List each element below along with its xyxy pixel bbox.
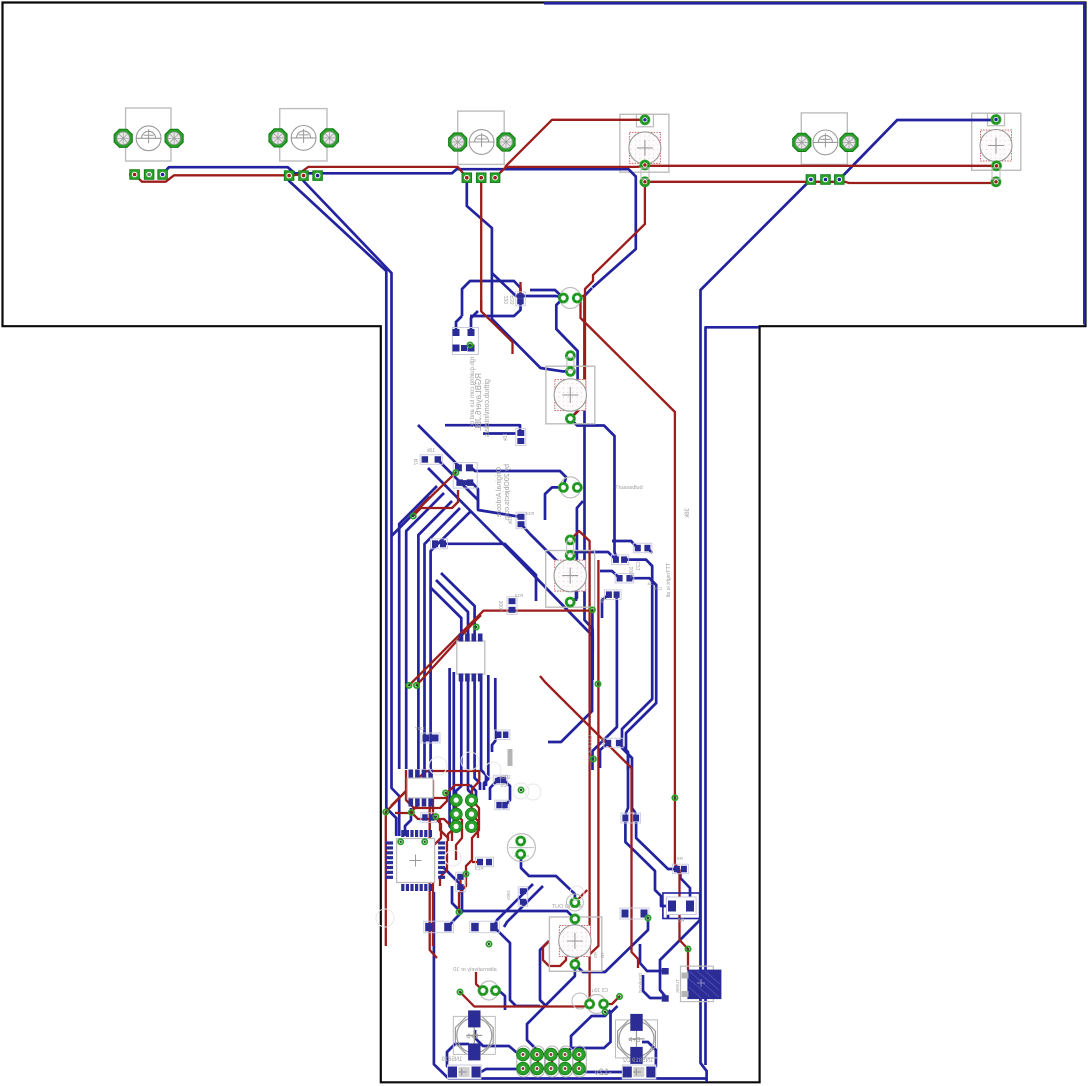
wire q2 via red	[413, 473, 456, 514]
wire c21 left blue	[566, 552, 616, 560]
diode D1	[448, 1065, 482, 1079]
wire col5 pad3 to LED D6 blue	[839, 120, 996, 180]
svg-text:10k: 10k	[426, 448, 435, 454]
header J6 pads	[517, 1048, 586, 1075]
label ardcore	[496, 467, 503, 517]
wire green cluster red2	[470, 800, 472, 826]
wire col5 to stem right blue	[701, 180, 811, 1083]
wire c5b blue	[503, 780, 510, 808]
label objects	[504, 464, 511, 520]
label bulbasaur	[615, 485, 642, 491]
svg-text:1N5819 D2: 1N5819 D2	[622, 1058, 653, 1064]
capacitor C6	[560, 288, 582, 309]
capacitor C5b	[495, 800, 509, 810]
svg-text:alternatively or 10: alternatively or 10	[453, 967, 496, 973]
connector J1 pads	[130, 170, 168, 180]
wire audio out right blue	[575, 918, 648, 972]
wire mid pair blue 2	[492, 678, 495, 752]
svg-text:8Я: 8Я	[678, 918, 685, 924]
wire sc3 right red	[604, 997, 620, 1005]
wire mid verticals blue 1	[556, 298, 577, 418]
wire red bottom h	[460, 992, 590, 1007]
wire cluster c5 blue	[490, 780, 498, 800]
wire soic2 pair blue 2	[454, 672, 458, 826]
wire soic2 down blue 3	[475, 681, 480, 790]
svg-text:R34: R34	[525, 511, 534, 516]
wire below row red	[645, 182, 996, 183]
wire header diag blue	[566, 1010, 611, 1054]
label R46	[600, 596, 605, 604]
resistor R2	[470, 921, 500, 933]
svg-text:C28: C28	[653, 586, 662, 591]
wire green cluster red3	[448, 826, 456, 841]
svg-text:10k: 10k	[600, 596, 605, 604]
wire soic2 up blue 3	[441, 573, 475, 634]
wire header red v1	[537, 1054, 539, 1069]
wire mid red h	[422, 770, 430, 772]
wire q2 diag blue 1	[418, 425, 458, 466]
svg-text:R5: R5	[593, 952, 598, 958]
capacitor C10	[456, 872, 466, 892]
capacitor C18 (electrolytic)	[616, 1014, 658, 1064]
wire staircase s5 blue	[612, 541, 638, 548]
wire green cluster red1	[455, 800, 457, 814]
wire weave w5 red	[424, 770, 448, 798]
label quiring	[470, 357, 476, 428]
wire diag to R2 blue 2	[504, 886, 543, 927]
connector J5 pads	[806, 175, 844, 185]
courtyard circles	[376, 752, 584, 927]
wire soic2 up blue 2	[436, 580, 468, 634]
resistor R13	[507, 597, 517, 615]
wire header to E2 blue	[565, 1006, 618, 1055]
IR sensor U5	[793, 113, 858, 164]
wire dpak pad2 blue	[643, 975, 662, 998]
wire soic2 down blue 2	[468, 681, 472, 800]
svg-text:TU99K: TU99K	[675, 979, 680, 993]
wire c6 stub red	[577, 295, 585, 298]
wire led2 top red	[570, 531, 592, 1002]
label alt	[453, 967, 496, 973]
LED D6 outline	[972, 113, 1021, 170]
wire R33 blue	[470, 302, 521, 317]
label C21	[636, 561, 642, 570]
wire sc2 left blue	[545, 487, 563, 520]
capacitor C15 (electrolytic)	[453, 1010, 495, 1060]
svg-text:RC2: RC2	[474, 866, 483, 871]
wire mid verticals blue 3	[570, 501, 583, 602]
wire red h610	[409, 611, 592, 686]
label magnificent	[666, 563, 672, 598]
svg-text:TB: TB	[600, 952, 605, 958]
svg-text:4+3: 4+3	[629, 1037, 641, 1044]
label R7	[426, 448, 435, 454]
diode D2	[622, 1065, 656, 1079]
wire weave w7 red	[433, 780, 441, 946]
wire R16 h blue	[483, 432, 516, 435]
resistor R33	[516, 292, 526, 306]
svg-text:100p: 100p	[629, 566, 635, 577]
wire staircase s4 blue	[647, 548, 652, 553]
wire audio to header blue	[527, 964, 575, 1054]
label C5	[499, 775, 510, 781]
capacitor C17	[572, 993, 607, 1014]
wire stem right edge blue	[706, 327, 760, 1065]
label R13	[499, 601, 505, 612]
wire weave w8 red	[440, 841, 447, 886]
wire D2 to E2 blue	[642, 1042, 656, 1072]
wire mid verticals blue 2	[585, 288, 593, 680]
label TU99	[675, 979, 680, 993]
IR sensor U2	[269, 109, 339, 161]
capacitor C13	[421, 733, 440, 743]
wire left fan 5 blue	[431, 512, 470, 769]
wire R33 top blue	[462, 281, 521, 316]
wire header red r2b	[566, 1067, 580, 1069]
wire sc4 blue	[499, 991, 505, 1011]
wire r8 link blue	[690, 905, 696, 908]
transistor Q1	[452, 328, 478, 355]
capacitor C28	[615, 574, 634, 584]
wire diag to R2 blue 1	[494, 884, 533, 927]
label 38k	[685, 508, 691, 519]
wire c6 left blue	[530, 290, 563, 298]
IR sensor U1	[114, 108, 183, 161]
wire sc4 red	[476, 972, 483, 991]
connector J3 pads	[462, 173, 500, 183]
svg-text:R9: R9	[677, 856, 683, 861]
wire weave w10 red	[440, 819, 448, 841]
wire bottom mid diag blue	[494, 927, 540, 1006]
svg-text:C5: C5	[501, 783, 508, 789]
capacitor C29	[633, 543, 652, 553]
connector JP2 pad cluster	[450, 794, 478, 832]
wire cluster right red	[466, 781, 479, 874]
label github	[484, 379, 491, 437]
wire q3 out blue	[521, 854, 575, 903]
wire R16 top blue	[445, 425, 520, 430]
wire cluster r2 red	[459, 874, 466, 912]
wire dpak red stub	[687, 966, 689, 970]
wire soic2 pair blue 1	[450, 668, 452, 829]
wire audio cap link blue	[574, 919, 577, 925]
LED D4 outline	[620, 114, 669, 172]
wire weave w11 red	[456, 814, 462, 860]
wire c28 blue	[600, 571, 620, 578]
wire r8 to edge blue	[668, 906, 672, 918]
wire R34 out blue	[521, 524, 576, 601]
svg-text:R33: R33	[510, 295, 516, 304]
wire col2 pad2 left trunk blue	[304, 176, 400, 836]
label R9	[677, 856, 683, 861]
wire E1 top to header blue	[475, 1030, 524, 1054]
wire red v2	[575, 560, 599, 964]
resistor R8	[663, 893, 700, 924]
wire top row red upper	[505, 120, 645, 167]
svg-text:100n: 100n	[499, 775, 510, 781]
wire left fan 2 blue	[406, 493, 444, 769]
svg-text:breakout: breakout	[638, 973, 644, 993]
wire top row red col3-col4	[495, 166, 645, 178]
LED pads top row	[641, 116, 1000, 186]
wire clockin blue	[619, 743, 628, 770]
resistor R22	[421, 813, 437, 823]
svg-text:bulbasaur?: bulbasaur?	[615, 485, 642, 491]
svg-text:rgb.quiring.com lux and co: rgb.quiring.com lux and co	[470, 357, 476, 428]
wire header red v3	[578, 1054, 580, 1069]
label minus12v	[594, 1067, 612, 1077]
wire qfp right fan blue	[452, 886, 575, 919]
wire C16 h blue	[446, 544, 536, 601]
wire audio left red	[543, 941, 566, 966]
label C1	[506, 890, 511, 901]
wire long diag red	[577, 298, 688, 966]
transistor Q3	[507, 834, 535, 862]
wire col3 pad1 to C7 blue	[467, 178, 571, 372]
label R25	[474, 866, 483, 871]
svg-text:-12v: -12v	[594, 1067, 612, 1077]
wire staircase s1 blue	[622, 560, 652, 814]
resistor R25	[476, 857, 494, 867]
wire led3 top red	[575, 890, 587, 903]
LED D7 pads	[567, 352, 575, 423]
svg-text:300k: 300k	[499, 601, 505, 612]
wire qfp red pin link	[429, 816, 431, 838]
wire R19 down blue 2	[636, 822, 690, 900]
resistor R21	[495, 730, 510, 740]
svg-text:2a: 2a	[647, 581, 653, 586]
label D2	[622, 1058, 653, 1064]
wire weave w2 red	[391, 770, 411, 806]
wire r25 red	[472, 861, 480, 863]
wire left red vertical	[413, 490, 458, 516]
wire D1 to header blue	[481, 1069, 524, 1073]
capacitor C5	[493, 775, 507, 785]
capacitor C7	[560, 477, 582, 498]
wire mid diag blue 2	[436, 458, 478, 508]
label R34	[508, 516, 514, 525]
wire left fan 1 blue	[399, 486, 437, 769]
wire q1 pads blue	[456, 316, 462, 332]
op-amp U4	[457, 634, 485, 682]
wire dpak diag blue	[660, 920, 700, 996]
wire top row col2-col4 blue	[318, 169, 636, 287]
resistor R1	[424, 921, 454, 933]
IC U2 (QFP)	[386, 830, 445, 891]
label R33	[504, 296, 510, 305]
wire led1 bottom blue	[570, 419, 616, 560]
wire left fan 3 blue	[418, 501, 452, 769]
svg-text:R45: R45	[600, 737, 605, 745]
wire weave w12 red	[472, 814, 479, 838]
svg-text:by 20Objects.com: by 20Objects.com	[504, 464, 511, 520]
wire staircase s2 blue	[626, 578, 656, 814]
svg-text:38k: 38k	[685, 508, 691, 519]
svg-text:4+3: 4+3	[466, 1033, 478, 1040]
wire border top-right blue	[544, 3, 1084, 324]
wire bl3 left blue	[540, 941, 549, 1006]
svg-text:C5 10u: C5 10u	[592, 988, 608, 994]
wire C6 feed blue	[492, 273, 564, 298]
wire col4 below down red	[570, 182, 645, 419]
wire header red r2	[524, 1067, 553, 1069]
svg-text:R13: R13	[514, 593, 523, 598]
wire soic2 down blue 4	[481, 681, 486, 786]
wire mid pair blue 1	[484, 675, 488, 790]
wire D1 to E1 blue	[447, 1044, 469, 1072]
wire q2 diag blue 2	[469, 466, 566, 488]
LED D9	[549, 917, 601, 971]
resistor R10	[620, 908, 649, 919]
label C13	[414, 726, 425, 731]
wire left fan 4 blue	[425, 508, 461, 769]
wire header row2 right blue	[580, 1069, 628, 1073]
wire R19 down blue 1	[625, 822, 666, 906]
wire clockin2 blue	[600, 743, 608, 768]
wire weave w4 red	[411, 812, 452, 841]
wire soic2 up blue 1	[430, 587, 461, 634]
svg-text:Original Ardcore: Original Ardcore	[496, 467, 503, 517]
transistor Q5 (DPAK)	[662, 966, 722, 1002]
wire qfp right fan2 blue	[444, 868, 462, 927]
wire weave w3 red	[406, 770, 470, 808]
svg-text:1N5819: 1N5819	[441, 1057, 463, 1063]
label audio	[551, 904, 582, 910]
wire R13 via blue	[591, 610, 594, 628]
resistor R19	[621, 813, 641, 823]
wire weave w6 red	[430, 780, 437, 958]
wire col3 pad2 down red	[481, 178, 512, 354]
wire bottom left corner blue	[434, 892, 707, 1079]
wire q1 red	[480, 300, 482, 311]
wire staircase s3 blue	[593, 598, 617, 770]
wire top row red col1	[129, 167, 467, 182]
label D1	[441, 1057, 463, 1063]
resistor R46	[604, 590, 621, 600]
label breakout	[638, 973, 644, 993]
LED D8	[546, 551, 595, 608]
svg-text:github.com/intelais: github.com/intelais	[484, 379, 491, 437]
resistor R9	[672, 864, 688, 874]
label C17	[592, 988, 608, 994]
svg-text:R7: R7	[414, 459, 420, 466]
capacitor C1	[518, 887, 528, 907]
wire q1 out blue	[471, 311, 478, 332]
capacitor C14	[479, 981, 499, 1000]
label R16	[503, 433, 509, 442]
svg-text:10k: 10k	[503, 433, 509, 442]
resistor R34	[516, 512, 526, 529]
wire red v3	[540, 676, 638, 968]
wire weave extra blue	[470, 785, 476, 800]
wire r33 red	[519, 282, 521, 296]
resistor R16	[516, 429, 526, 446]
capacitor C16	[431, 539, 448, 549]
LED D9 pads	[566, 894, 583, 968]
svg-text:100n: 100n	[506, 890, 511, 901]
wire top row col1-col2 blue	[163, 167, 318, 174]
label R5	[593, 952, 598, 958]
label clock	[588, 735, 594, 761]
wire top row red col4-col6	[645, 165, 997, 167]
LED D8 pads	[566, 536, 574, 606]
svg-text:TTTnight is all: TTTnight is all	[666, 563, 672, 598]
IR sensor U3	[449, 111, 515, 164]
wire mid diag blue	[428, 468, 593, 652]
svg-text:C21: C21	[636, 561, 642, 570]
wire c1 red	[459, 877, 461, 888]
wire soic1 down blue 1	[405, 808, 411, 836]
wire col2 pad1 left trunk blue	[289, 176, 396, 836]
svg-text:1337: 1337	[414, 726, 425, 731]
capacitor C21	[611, 555, 628, 565]
wire soic2 down blue 1	[456, 681, 461, 796]
wire q2 out blue	[470, 481, 521, 517]
wire header red r1	[538, 1053, 566, 1055]
label rgb layer	[474, 373, 483, 431]
wire red diag2	[417, 615, 482, 685]
op-amp U3	[407, 770, 433, 807]
capacitor C3	[604, 738, 623, 748]
wire big diag mid blue	[392, 497, 431, 536]
resistor R7	[420, 455, 443, 465]
LED D7	[546, 366, 595, 424]
wire header red v2	[551, 1054, 553, 1069]
wire staircase s3b blue	[548, 629, 592, 742]
wire r46 blue	[602, 595, 609, 618]
wire dpak pad1 blue	[640, 944, 662, 971]
wire weave w1 red	[386, 771, 480, 946]
silk bar	[508, 749, 513, 766]
wire weave w9 red	[395, 770, 417, 813]
vias	[590, 607, 595, 612]
connector J2 pads	[284, 171, 322, 181]
transistor Q2	[453, 463, 477, 489]
connector J6 outline	[517, 1046, 587, 1077]
